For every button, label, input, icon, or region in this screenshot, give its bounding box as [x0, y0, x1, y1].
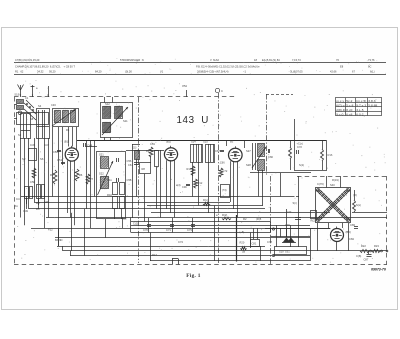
svg-text:C4: C4: [16, 197, 20, 201]
svg-text:6(7)·v: 6(7)·v: [336, 103, 345, 107]
svg-text:84,20: 84,20: [95, 69, 102, 73]
svg-text:R11: R11: [107, 178, 112, 182]
svg-text:S(r): S(r): [293, 201, 297, 205]
svg-text:C5: C5: [123, 217, 127, 221]
svg-text:(0),20: (0),20: [125, 69, 132, 73]
svg-text:8·x0: 8·x0: [346, 108, 352, 112]
svg-text:R8: R8: [142, 167, 146, 171]
svg-text:R12: R12: [198, 181, 203, 185]
svg-text:R23: R23: [374, 244, 379, 248]
svg-text:R2: R2: [50, 173, 54, 177]
svg-text:R16: R16: [328, 153, 333, 157]
svg-text:S2: S2: [22, 157, 26, 161]
svg-text:95,20: 95,20: [49, 69, 56, 73]
svg-text:3·L·5: 3·L·5: [356, 108, 364, 112]
svg-text:C(8): C(8): [356, 254, 361, 258]
svg-text:R(x): R(x): [203, 199, 208, 202]
svg-text:S23: S23: [132, 147, 137, 150]
svg-text:BAND: BAND: [55, 238, 63, 242]
svg-text:69673-76: 69673-76: [371, 267, 386, 271]
svg-text:S29 S31: S29 S31: [279, 250, 290, 254]
svg-text:C61: C61: [128, 163, 133, 167]
svg-text:7,15,73: 7,15,73: [292, 58, 301, 62]
svg-text:9·x·0: 9·x·0: [336, 112, 343, 116]
svg-text:S12: S12: [105, 102, 110, 106]
svg-text:V 6L62: V 6L62: [210, 58, 219, 62]
svg-text:R1: R1: [66, 128, 70, 132]
svg-text:S3: S3: [18, 133, 22, 137]
svg-text:5·8·88: 5·8·88: [368, 103, 377, 107]
svg-text:3L(6)07,05: 3L(6)07,05: [290, 69, 303, 73]
svg-text:(74): (74): [222, 189, 227, 192]
svg-text:C51: C51: [57, 158, 63, 162]
svg-text:(R)5: (R)5: [256, 217, 262, 221]
svg-text:C67: C67: [215, 149, 220, 153]
svg-text:C71: C71: [166, 228, 171, 232]
svg-text:C84: C84: [349, 237, 354, 241]
svg-text:S4: S4: [38, 104, 42, 108]
svg-text:Fig. 1: Fig. 1: [186, 273, 201, 279]
svg-text:R6: R6: [79, 173, 83, 177]
svg-text:C50: C50: [53, 150, 58, 154]
svg-text:P.B. E2,4–56x8(45) C1,52,02,3,: P.B. E2,4–56x8(45) C1,52,02,3,8 (25,0)5,…: [196, 64, 260, 68]
svg-text:S6: S6: [40, 157, 44, 161]
svg-text:A1: A1: [15, 204, 19, 208]
svg-text:R4: R4: [36, 207, 40, 211]
svg-text:C72: C72: [297, 145, 302, 149]
svg-text:C54: C54: [182, 84, 187, 88]
svg-text:6·0·2: 6·0·2: [356, 112, 364, 116]
svg-text:S22: S22: [99, 172, 104, 176]
svg-text:R3: R3: [36, 201, 40, 205]
svg-text:C70: C70: [143, 228, 148, 232]
svg-text:F12: F12: [48, 228, 53, 232]
svg-text:S(1): S(1): [299, 163, 304, 167]
svg-text:S(x): S(x): [356, 203, 361, 207]
svg-text:R(2): R(2): [311, 219, 316, 223]
svg-text:R2: R2: [243, 217, 247, 221]
svg-text:C1: C1: [25, 96, 29, 100]
svg-text:C50: C50: [30, 180, 35, 184]
svg-text:9·7·x·3: 9·7·x·3: [356, 103, 366, 107]
svg-text:R20: R20: [240, 241, 245, 245]
svg-text:C49: C49: [23, 209, 28, 213]
svg-text:R7: R7: [90, 177, 94, 181]
svg-text:C58: C58: [127, 178, 132, 182]
svg-text:S27: S27: [246, 149, 251, 153]
svg-text:(B2): (B2): [166, 140, 171, 144]
svg-text:E8: E8: [340, 64, 344, 68]
svg-text:C78: C78: [267, 240, 272, 244]
svg-text:S1B: S1B: [14, 93, 19, 97]
svg-text:S40: S40: [330, 183, 335, 187]
svg-text:(m·x·5): (m·x·5): [356, 99, 366, 103]
svg-text:m·x·y: m·x·y: [336, 99, 344, 103]
svg-text:C77: C77: [287, 210, 292, 214]
svg-text:R9: R9: [146, 149, 150, 153]
svg-text:C66: C66: [220, 162, 225, 165]
svg-text:C56: C56: [127, 159, 132, 163]
svg-text:C3b: C3b: [182, 185, 187, 189]
svg-text:6(L): 6(L): [370, 69, 375, 73]
svg-text:42,66: 42,66: [330, 69, 337, 73]
svg-text:C74: C74: [178, 240, 183, 244]
svg-text:S24: S24: [191, 140, 196, 144]
svg-text:6·x8: 6·x8: [346, 112, 352, 116]
svg-text:C72: C72: [223, 169, 228, 173]
svg-text:B3: B3: [230, 140, 234, 144]
svg-text:S25: S25: [203, 140, 208, 144]
svg-text:E(L)5,81,(S),84: E(L)5,81,(S),84: [262, 58, 280, 62]
svg-text:(+5): (+5): [240, 230, 245, 234]
svg-text:C46: C46: [51, 103, 56, 107]
svg-text:C48: C48: [87, 144, 93, 148]
svg-text:C(76): C(76): [317, 182, 324, 186]
svg-text:CHAMP,QN,107,96,E1,89,20 6,(3: CHAMP,QN,107,96,E1,89,20 6,(37)C5, + C8 …: [15, 64, 75, 68]
svg-text:5·x·8: 5·x·8: [346, 103, 353, 107]
svg-text:R17: R17: [152, 253, 157, 257]
svg-text:C59: C59: [150, 142, 155, 146]
svg-text:143 U: 143 U: [177, 115, 209, 126]
svg-text:R10: R10: [187, 167, 192, 171]
svg-text:3·8·3: 3·8·3: [368, 99, 376, 103]
svg-text:S11: S11: [123, 119, 128, 123]
svg-text:R(19): R(19): [332, 178, 339, 182]
svg-text:C76: C76: [285, 223, 290, 227]
svg-text:S15: S15: [44, 200, 49, 204]
svg-text:C66: C66: [268, 155, 273, 159]
svg-text:(9): (9): [242, 250, 245, 254]
svg-text:C87: C87: [364, 258, 369, 262]
svg-text:(R): (R): [353, 193, 357, 197]
svg-text:5TROMSNIVAER N: 5TROMSNIVAER N: [120, 58, 144, 62]
svg-text:R(2): R(2): [222, 213, 227, 217]
svg-text:a(4): a(4): [176, 184, 181, 187]
svg-text:C81: C81: [252, 241, 257, 245]
svg-text:C45: C45: [30, 143, 36, 147]
svg-text:2(6)8(5)4–C(5)–(4)7,5(4L4): 2(6)8(5)4–C(5)–(4)7,5(4L4): [197, 69, 229, 73]
svg-text:C(2): C(2): [133, 222, 138, 226]
svg-text:S28: S28: [246, 163, 251, 167]
svg-text:S21: S21: [99, 153, 104, 157]
svg-text:5x·2: 5x·2: [346, 99, 352, 103]
svg-text:C: C: [221, 89, 223, 93]
svg-text:R1 62: R1 62: [15, 69, 24, 73]
svg-text:73,76: 73,76: [368, 58, 375, 62]
svg-text:C83: C83: [350, 223, 355, 227]
svg-text:C7(B),C9,F9,N,15,20: C7(B),C9,F9,N,15,20: [15, 58, 40, 62]
svg-text:C47: C47: [44, 143, 50, 147]
